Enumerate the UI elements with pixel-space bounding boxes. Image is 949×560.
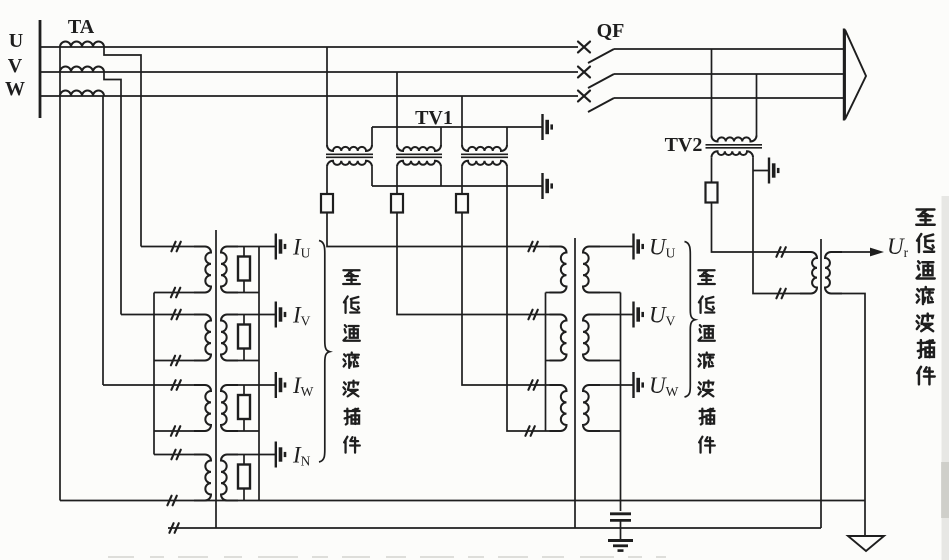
wire TV1 secondary common drop to U-bank primary return bbox=[507, 186, 558, 431]
resistor across I-bank T2 secondary bbox=[243, 315, 245, 325]
wire scan shadow right edge bbox=[942, 196, 949, 560]
transformer TA phase U secondary coil bbox=[60, 42, 104, 47]
wire I-bank T4 primary top lead bbox=[154, 454, 205, 456]
svg-text:TV2: TV2 bbox=[665, 134, 703, 156]
label text char 7 of vertical caption bbox=[917, 367, 934, 385]
svg-text:TA: TA bbox=[68, 16, 95, 38]
transformer U-bank T3 primary winding bbox=[550, 385, 567, 431]
brace for I outputs bbox=[319, 241, 330, 463]
label text char 3 of vertical caption bbox=[917, 261, 935, 278]
transformer Ur primary winding bbox=[800, 252, 817, 294]
cable mark on I-bank T1 primary bottom lead bbox=[171, 288, 180, 298]
label text char 7 of vertical caption bbox=[344, 437, 360, 453]
transformer TV2 core bbox=[706, 144, 763, 146]
label text char 3 of vertical caption bbox=[343, 325, 359, 341]
wire TV1 T2 secondary right lead down to common bbox=[440, 167, 442, 186]
transformer TV1 T1 secondary winding bbox=[327, 161, 372, 167]
breaker QF contact X bbox=[578, 91, 590, 102]
transformer TA phase V secondary coil bbox=[60, 67, 104, 72]
label text char 4 of vertical caption bbox=[343, 352, 358, 367]
capacitor to earth bbox=[610, 512, 631, 515]
wire U-bank primary return vertical bbox=[545, 293, 547, 432]
wire phase W line after QF bbox=[614, 97, 844, 99]
wire scan smudge bottom caption remnants bbox=[108, 556, 666, 558]
wire TV1 phase drop to primary T2 bbox=[396, 72, 398, 145]
transformer TV1 T1 primary winding bbox=[327, 145, 372, 151]
transformer I-bank T1 secondary winding bbox=[221, 247, 238, 293]
transformer Ur secondary winding bbox=[825, 252, 842, 294]
label text char 1 of vertical caption bbox=[343, 270, 360, 284]
wire TA W secondary right lead drop to I-bank row3 bbox=[102, 96, 104, 385]
wire U-bank T2 primary bottom lead bbox=[546, 360, 561, 362]
wire U-bank T3 secondary bottom lead to common bbox=[589, 430, 621, 432]
wire U-bank T1 primary bottom lead bbox=[546, 292, 561, 294]
output plug UU bbox=[634, 234, 643, 260]
wire R1 output to U-bank row1 bbox=[327, 213, 558, 247]
wire TV1 T1 secondary left lead to resistor bbox=[326, 167, 328, 194]
transformer U-bank T2 secondary winding bbox=[583, 315, 600, 361]
label text char 4 of vertical caption bbox=[917, 287, 934, 304]
wire U-bank T2 secondary bottom lead to common bbox=[589, 360, 621, 362]
svg-text:UU: UU bbox=[649, 235, 676, 261]
wire R2 output to U-bank row2 bbox=[397, 213, 558, 315]
cable mark on U-bank primary return bbox=[525, 426, 534, 436]
wire I-bank T1 secondary bottom lead to common bbox=[227, 292, 259, 294]
resistor R2 below TV1 T2 bbox=[391, 194, 403, 213]
transformer TV2 primary winding bbox=[712, 136, 757, 142]
resistor across I-bank T4 secondary bbox=[243, 455, 245, 465]
wire Ur secondary bottom lead down to earth triangle bbox=[831, 294, 865, 537]
cable mark on I-bank T2 primary bottom lead bbox=[171, 356, 180, 366]
node outgoing feeder arrow bbox=[843, 29, 845, 121]
wire TV1 phase drop to primary T1 bbox=[326, 47, 328, 145]
wire U-bank secondary common vertical down to capacitor bbox=[620, 293, 622, 512]
wire I-bank primary series link vertical bbox=[153, 293, 155, 455]
svg-text:UV: UV bbox=[649, 303, 676, 329]
transformer TV1 T2 core bbox=[396, 153, 442, 155]
wire TV1 T3 secondary right lead down to common bbox=[506, 167, 508, 186]
wire TV1 T1 primary right lead up to neutral bbox=[371, 127, 373, 145]
wire I-bank T4 secondary top lead to output plug bbox=[227, 454, 276, 456]
wire TV2 primary drop from U line bbox=[711, 49, 713, 136]
svg-text:UW: UW bbox=[649, 373, 679, 399]
transformer TV2 secondary winding bbox=[712, 151, 754, 157]
cable mark on Ur-bank top lead bbox=[776, 247, 785, 257]
wire TV2 secondary left lead to resistor bbox=[711, 157, 713, 182]
transformer U-bank T1 primary winding bbox=[550, 247, 567, 293]
ground plug of TV2 secondary bbox=[769, 158, 778, 184]
wire I-bank T3 secondary top lead to output plug bbox=[227, 384, 276, 386]
transformer U-bank T1 secondary winding bbox=[583, 247, 600, 293]
cable mark on I-bank T4 primary top lead bbox=[171, 450, 180, 460]
resistor across I-bank T1 secondary bbox=[243, 247, 245, 257]
transformer I-bank T1 primary winding bbox=[194, 247, 211, 293]
wire Ur secondary top lead output with arrow bbox=[831, 251, 871, 253]
transformer TV1 T2 primary winding bbox=[397, 145, 441, 151]
svg-text:IU: IU bbox=[292, 235, 311, 261]
wire TV1 secondary common line to ground plug bbox=[372, 185, 542, 187]
transformer TV1 T3 core bbox=[461, 153, 508, 155]
wire TA U secondary right lead step and drop to I-bank row1 bbox=[104, 47, 141, 247]
wire capacitor to earth symbol bbox=[620, 520, 622, 540]
svg-text:IW: IW bbox=[292, 373, 314, 399]
label text char 5 of vertical caption bbox=[698, 381, 713, 397]
label text char 2 of vertical caption bbox=[344, 296, 359, 312]
wire U-bank T1 secondary bottom lead to common bbox=[589, 292, 621, 294]
ground open triangle earth bbox=[848, 536, 884, 551]
node left bus bar bbox=[39, 20, 42, 118]
svg-text:U: U bbox=[9, 30, 23, 52]
breaker QF contact X bbox=[578, 67, 590, 78]
ground plug of TV1 secondary common bbox=[543, 173, 552, 199]
wire TV1 T3 primary right lead up to neutral bbox=[506, 127, 508, 145]
wire bottom return line 1 bbox=[60, 500, 865, 502]
label text char 7 of vertical caption bbox=[699, 437, 715, 453]
wire bottom shield ground line 2 bbox=[168, 527, 821, 529]
wire TV1 T1 secondary right lead down to common bbox=[371, 167, 373, 186]
ground earth symbol bbox=[608, 539, 633, 542]
output plug IU bbox=[276, 234, 285, 260]
transformer TV1 T3 primary winding bbox=[462, 145, 507, 151]
transformer U-bank T3 secondary winding bbox=[583, 385, 600, 431]
cable mark on U-bank row1 feed bbox=[528, 242, 537, 252]
wire Ur shield line bbox=[820, 239, 822, 528]
transformer TA phase W secondary coil bbox=[60, 91, 104, 97]
output plug IW bbox=[276, 372, 285, 398]
wire phase U line from bus to QF bbox=[41, 46, 578, 48]
ground plug of TV1 primary neutral bbox=[543, 114, 552, 140]
cable mark on I-bank T1 primary top lead bbox=[171, 242, 180, 252]
cable mark on I-bank T3 primary top lead bbox=[171, 380, 180, 390]
svg-text:IV: IV bbox=[292, 303, 311, 329]
resistor R3 below TV1 T3 bbox=[456, 194, 468, 213]
cable mark on U-bank row3 feed bbox=[528, 380, 537, 390]
cable mark on U-bank row2 feed bbox=[528, 310, 537, 320]
wire TV1 T2 secondary left lead to resistor bbox=[396, 167, 398, 194]
resistor below TV2 bbox=[706, 183, 718, 203]
transformer I-bank T3 primary winding bbox=[194, 385, 211, 431]
label text char 4 of vertical caption bbox=[698, 352, 713, 367]
wire U-bank T3 secondary top lead to plug bbox=[589, 384, 634, 386]
wire U-bank T2 secondary top lead to plug bbox=[589, 314, 634, 316]
label text char 5 of vertical caption bbox=[343, 381, 358, 397]
wire I-bank T3 secondary bottom lead to common bbox=[227, 430, 259, 432]
transformer TV1 T1 core bbox=[326, 153, 373, 155]
svg-text:QF: QF bbox=[597, 20, 625, 42]
wire phase V line from bus to QF bbox=[41, 71, 578, 73]
brace for U outputs bbox=[685, 242, 696, 398]
wire I-bank T2 secondary bottom lead to common bbox=[227, 360, 259, 362]
wire I-bank T2 secondary top lead to output plug bbox=[227, 314, 276, 316]
wire I-bank T3 primary top lead bbox=[103, 384, 205, 386]
transformer I-bank T4 secondary winding bbox=[221, 455, 238, 501]
wire I-bank T1 primary bottom lead to series link bbox=[154, 292, 205, 294]
label text char 2 of vertical caption bbox=[917, 234, 934, 252]
transformer I-bank T3 secondary winding bbox=[221, 385, 238, 431]
label text char 5 of vertical caption bbox=[917, 314, 934, 331]
wire phase W line from bus to QF bbox=[41, 95, 578, 97]
cable mark on I-bank T4 bottom return bbox=[167, 496, 176, 506]
wire I-bank T2 primary bottom lead to series link bbox=[154, 360, 205, 362]
wire phase U line after QF bbox=[614, 48, 844, 50]
wire TV1 T2 primary right lead up to neutral bbox=[440, 127, 442, 145]
wire TV2 resistor output down to Ur-bank top lead bbox=[712, 203, 807, 253]
output plug IN bbox=[276, 442, 285, 468]
cable mark on I-bank T3 primary bottom lead bbox=[171, 426, 180, 436]
wire TV1 T3 secondary left lead to resistor bbox=[461, 167, 463, 194]
resistor across I-bank T3 secondary bbox=[243, 385, 245, 395]
cable mark on I-bank T2 primary top lead bbox=[171, 310, 180, 320]
label text char 6 of vertical caption bbox=[918, 340, 935, 358]
wire I-bank T1 secondary top lead to output plug bbox=[227, 246, 276, 248]
label text char 6 of vertical caption bbox=[700, 409, 715, 425]
label text char 6 of vertical caption bbox=[345, 409, 360, 425]
breaker QF contact X bbox=[578, 42, 590, 53]
label text char 2 of vertical caption bbox=[699, 296, 714, 312]
label text char 1 of vertical caption bbox=[698, 270, 715, 284]
transformer I-bank T2 primary winding bbox=[194, 315, 211, 361]
resistor R1 below TV1 T1 bbox=[321, 194, 333, 213]
transformer TV1 T3 secondary winding bbox=[462, 161, 507, 167]
svg-text:Ur: Ur bbox=[887, 234, 909, 260]
label text char 1 of vertical caption bbox=[916, 210, 934, 225]
transformer TV1 T2 secondary winding bbox=[397, 161, 441, 167]
breaker QF blade bbox=[588, 49, 614, 63]
output plug UW bbox=[634, 372, 643, 398]
output plug UV bbox=[634, 302, 643, 328]
wire I-bank T1 primary top lead bbox=[141, 246, 205, 248]
cable mark on shield ground line left end bbox=[169, 523, 178, 533]
breaker QF blade bbox=[588, 98, 614, 112]
wire I-bank shield line bbox=[215, 230, 217, 528]
wire TV1 primary neutral line to ground plug bbox=[372, 126, 542, 128]
wire TV1 phase drop to primary T3 bbox=[461, 96, 463, 145]
wire TA V secondary right lead step and drop to I-bank row2 bbox=[104, 72, 121, 315]
wire TA common left lead down to bottom line bbox=[59, 47, 61, 501]
wire U-bank shield line bbox=[574, 238, 576, 528]
wire I-bank secondary common vertical bbox=[258, 247, 260, 501]
wire R3 output to U-bank row3 bbox=[462, 213, 558, 386]
wire I-bank T3 primary bottom lead to series link bbox=[154, 430, 205, 432]
wire TV2 primary drop from V line bbox=[756, 74, 758, 136]
transformer I-bank T4 primary winding bbox=[194, 455, 211, 501]
wire I-bank T2 primary top lead bbox=[121, 314, 205, 316]
label text char 3 of vertical caption bbox=[698, 325, 714, 341]
svg-text:TV1: TV1 bbox=[415, 107, 453, 129]
transformer I-bank T2 secondary winding bbox=[221, 315, 238, 361]
svg-text:W: W bbox=[5, 78, 25, 100]
wire phase V line after QF bbox=[614, 73, 844, 75]
cable mark on Ur-bank bottom lead bbox=[776, 289, 785, 299]
breaker QF blade bbox=[588, 74, 614, 88]
svg-text:V: V bbox=[8, 55, 23, 77]
transformer U-bank T2 primary winding bbox=[550, 315, 567, 361]
output plug IV bbox=[276, 302, 285, 328]
wire TV2 secondary right lead to ground plug and Ur-bank bbox=[753, 157, 806, 293]
wire U-bank T1 secondary top lead to plug bbox=[589, 246, 634, 248]
svg-text:IN: IN bbox=[292, 443, 311, 469]
